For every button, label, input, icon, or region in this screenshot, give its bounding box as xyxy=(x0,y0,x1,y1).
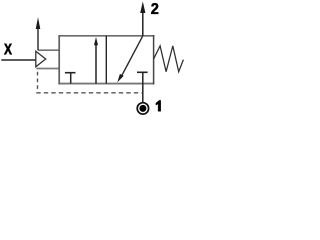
port 1 connection circle xyxy=(137,103,148,114)
valve body right edge xyxy=(153,35,155,84)
port 2 arrow (up) xyxy=(140,1,145,35)
left square flow arrow (up) xyxy=(94,37,98,84)
right square blocked port 1 T with stem to port xyxy=(137,72,148,102)
wire X input line xyxy=(1,59,36,61)
label X (pilot port) xyxy=(4,44,12,55)
left square blocked port T xyxy=(65,73,76,84)
pilot actuator triangle xyxy=(36,51,46,67)
valve body top edge xyxy=(58,35,154,37)
valve body left edge xyxy=(58,35,60,84)
right square flow diagonal arrow from port 2 xyxy=(117,36,143,83)
pilot line dashed horizontal to port 1 xyxy=(36,92,142,94)
spring return xyxy=(154,46,184,72)
wire bottom connector from triangle to valve body xyxy=(36,68,59,70)
label 1 xyxy=(156,100,161,111)
pilot line dashed vertical xyxy=(37,72,39,89)
pilot exhaust arrow (up) xyxy=(36,17,41,50)
wire top connector from pilot arrow to valve body xyxy=(38,49,59,51)
valve position divider xyxy=(105,36,107,84)
label 2 xyxy=(151,3,158,14)
valve body bottom edge xyxy=(58,83,154,85)
